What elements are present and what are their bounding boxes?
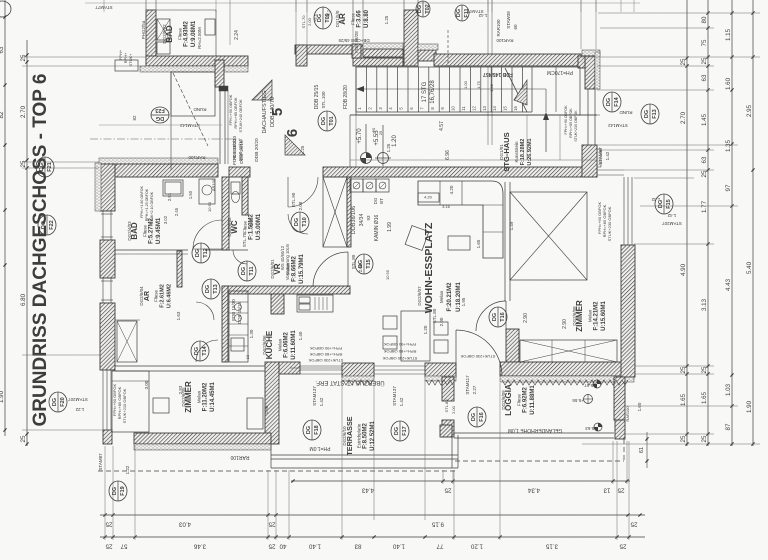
stair landing bbox=[531, 67, 533, 112]
wall stair left vertical bbox=[404, 10, 418, 66]
wall top band right bbox=[363, 49, 403, 57]
left witness lines bbox=[22, 56, 146, 58]
level mark +5.63 bbox=[594, 423, 602, 431]
door arc entrance stair bbox=[288, 177, 318, 207]
couch L-shape bbox=[418, 181, 503, 258]
insulation strip bbox=[594, 149, 601, 167]
door arc T13 bbox=[196, 302, 214, 320]
badge DG F18 bbox=[303, 420, 321, 440]
partition WC bbox=[242, 177, 248, 215]
stair cut line bbox=[505, 68, 527, 112]
roof access arrows bbox=[252, 80, 272, 100]
badge DG F13 bbox=[641, 104, 659, 124]
badge DG F23 bbox=[151, 107, 169, 123]
main wall right part bbox=[323, 167, 597, 177]
wall top middle right bbox=[353, 58, 403, 66]
terrace left lines bbox=[270, 444, 272, 468]
loggia left pier 1 bbox=[442, 377, 454, 401]
room label BAD top bbox=[162, 20, 197, 47]
room label ZIMMER right bbox=[572, 300, 607, 332]
dim line 61 bbox=[646, 432, 648, 468]
wall cap black bbox=[219, 86, 228, 91]
dining table bbox=[401, 311, 430, 361]
partition AR top bbox=[115, 319, 140, 321]
wall bathroom-top left vertical bbox=[146, 10, 156, 66]
badge DG F15 bbox=[655, 194, 673, 214]
zimmer-left right wall bbox=[265, 362, 279, 444]
room label VR bbox=[270, 254, 305, 284]
right chain 3 bbox=[725, 0, 734, 446]
dashed boundary vertical bbox=[623, 439, 625, 461]
right outer wall bbox=[621, 245, 635, 377]
badge DG T15 bbox=[355, 254, 373, 274]
badge DG F11 bbox=[455, 5, 470, 21]
window left zimmer bbox=[102, 370, 104, 430]
room label KUECHE bbox=[262, 330, 297, 360]
wall stair top long bbox=[434, 54, 581, 66]
loggia bottom edge bbox=[454, 432, 614, 434]
door arc VR-living T15 bbox=[313, 252, 348, 287]
washing machine BAD left bbox=[199, 179, 215, 204]
level mark +5.55 bbox=[584, 395, 593, 404]
thin partition living/zimmer bbox=[504, 182, 506, 301]
stipple corner top bbox=[582, 50, 600, 56]
loggia right pier bbox=[615, 420, 625, 439]
coffee table bbox=[448, 236, 470, 250]
badge DG F16 bbox=[468, 407, 486, 427]
terrace corner post bbox=[440, 425, 452, 437]
survey circle mark bbox=[375, 125, 391, 166]
loggia right wall bbox=[614, 377, 625, 420]
partition BAD/AR bbox=[177, 251, 182, 287]
stair hall verticals bbox=[526, 115, 528, 160]
room label TERRASSE bbox=[342, 416, 376, 455]
partition piece VR top bbox=[229, 167, 250, 177]
badge DG T01 bbox=[318, 111, 336, 131]
washbasin BAD left bbox=[163, 180, 183, 196]
badge DG T02 bbox=[416, 1, 431, 17]
right chain 1 bbox=[680, 0, 689, 446]
kitchen chimney pier bbox=[271, 294, 284, 314]
bottom witness lines bbox=[104, 446, 106, 540]
interior partition thin lines bbox=[115, 249, 188, 251]
stipple top band right bbox=[363, 43, 403, 49]
wall corner step bbox=[578, 56, 585, 68]
partition living/zimmer pier bbox=[506, 329, 519, 362]
room label STG-HAUS bbox=[499, 132, 533, 171]
insulation strip bbox=[418, 44, 438, 50]
badge DG T12 bbox=[192, 243, 210, 263]
bottom chain middle bbox=[100, 513, 645, 527]
stair arrow hatch bbox=[514, 80, 527, 105]
stair-house right wall thin bbox=[587, 89, 589, 149]
wall stair right corner bbox=[585, 56, 595, 89]
badge DG T16 bbox=[489, 307, 507, 327]
dash-dot line bbox=[90, 138, 240, 140]
door arc living-loggia bbox=[456, 330, 502, 376]
door arc WC T11 bbox=[233, 250, 247, 264]
badge DG F17 bbox=[391, 421, 409, 441]
level mark +5.67 bbox=[593, 380, 601, 388]
wardrobe AR left bbox=[117, 321, 137, 362]
shower top bad bbox=[157, 19, 170, 40]
right side witness lines bbox=[598, 12, 760, 14]
badge DG T09 bbox=[314, 7, 332, 29]
chairs dining bbox=[434, 322, 448, 335]
partition shaft right bbox=[347, 177, 351, 247]
survey compass mark bbox=[361, 124, 372, 164]
wall top middle bbox=[295, 45, 363, 54]
room label LOGGIA bbox=[501, 384, 536, 416]
bottom pier 1 bbox=[342, 363, 374, 377]
bottom pier 2 bbox=[425, 363, 456, 377]
door arc zimmer-left T14 bbox=[196, 340, 218, 362]
loggia left pier 2 bbox=[442, 420, 454, 437]
partition AR/zimmer-left bbox=[115, 365, 265, 367]
badge DG F20 bbox=[49, 392, 67, 412]
insulation strip bbox=[500, 376, 634, 382]
badge DG T13 bbox=[202, 279, 220, 299]
kitchen counter left arm bbox=[229, 291, 248, 362]
dashed boundary line bottom bbox=[98, 470, 455, 472]
insulation strip bbox=[140, 66, 248, 72]
room label AR left bbox=[139, 284, 173, 308]
bed zimmer left bbox=[112, 371, 149, 432]
right chain 2 bbox=[701, 0, 710, 446]
kitchen counter top arm bbox=[297, 295, 333, 312]
corner wall piece bbox=[279, 362, 300, 374]
stove block bbox=[350, 179, 363, 192]
thin wall lines below cap bbox=[219, 91, 221, 164]
roof terrace outline bbox=[171, 72, 215, 116]
left outer wall upper bbox=[100, 164, 115, 211]
wardrobe zimmer right bbox=[520, 340, 617, 362]
stair walk line bbox=[362, 88, 546, 90]
nightstand bbox=[247, 398, 263, 429]
WC fixture bbox=[231, 182, 240, 194]
room label ZIMMER left bbox=[181, 381, 216, 413]
riser line RAR100 bbox=[487, 0, 489, 145]
wall corner stair/zimmer bbox=[582, 145, 597, 177]
left dimension chain outer bbox=[0, 0, 7, 436]
window right outer bbox=[623, 177, 625, 245]
badge DG T14 bbox=[191, 341, 209, 361]
left dimension chain inner bbox=[20, 40, 29, 446]
badge DG F21 bbox=[36, 157, 54, 177]
wall stair top small bbox=[418, 50, 436, 61]
shaft with X bbox=[323, 177, 347, 247]
top witness lines bbox=[145, 0, 147, 12]
terrace edges bbox=[271, 454, 458, 456]
badge DG T11 bbox=[238, 261, 256, 281]
insulation strip bbox=[342, 376, 374, 381]
room label WC bbox=[227, 213, 262, 240]
left outer wall mid bbox=[100, 240, 115, 278]
badge DG F19 bbox=[109, 481, 127, 501]
staircase treads bbox=[356, 67, 580, 115]
left bottom pier bbox=[103, 430, 112, 444]
room label WOHN-ESSPLATZ bbox=[417, 222, 462, 313]
main wall left part bbox=[99, 164, 218, 177]
zimmer-left bottom wall bbox=[134, 433, 271, 444]
dashed boundary line right-bottom bbox=[455, 460, 624, 462]
insulation strip bbox=[99, 158, 218, 165]
insulation zigzag under piers bbox=[343, 380, 373, 385]
badge DG T10 bbox=[291, 212, 309, 232]
door arc T10 bbox=[288, 214, 308, 234]
insulation strip bbox=[134, 444, 271, 450]
roof terrace diagonal bbox=[173, 73, 208, 146]
wall right jamb niche bbox=[352, 44, 361, 58]
arrow up into stair house bbox=[545, 115, 547, 152]
partition bath/VR bbox=[222, 177, 229, 250]
insulation strip bbox=[425, 376, 456, 381]
window left BAD bbox=[101, 210, 113, 212]
window left AR bbox=[101, 277, 113, 279]
left outer wall lower bbox=[100, 303, 115, 370]
badge DG F22 bbox=[38, 215, 56, 235]
bottom chain upper bbox=[291, 479, 630, 493]
badge DG F14 bbox=[603, 92, 621, 112]
terrace door threshold bbox=[290, 367, 342, 369]
armchair tilted bbox=[405, 226, 429, 251]
wall bathroom-top bottom bbox=[146, 56, 248, 66]
door arc living-zimmer T16 bbox=[476, 301, 506, 331]
hall lines below stairs bbox=[350, 114, 600, 116]
window bottom band bbox=[300, 365, 342, 367]
wall VR bottom bbox=[222, 286, 350, 294]
top edge reference lines bbox=[103, 0, 105, 12]
bed zimmer right / dachschraege X bbox=[510, 192, 587, 280]
wall stub below bathroom-top bbox=[215, 60, 224, 87]
partial badge top-left corner bbox=[0, 1, 11, 17]
wall step down bbox=[296, 45, 307, 66]
stipple corner right bbox=[595, 52, 600, 89]
bottom chain lower bbox=[100, 535, 645, 549]
room label AR top bbox=[335, 9, 370, 28]
outer stipple left wall bbox=[95, 163, 101, 211]
room label BAD left bbox=[127, 217, 162, 244]
partition kitchen left bbox=[222, 286, 228, 362]
right chain 4 bbox=[746, 0, 755, 446]
zimmer-right bottom wall bbox=[500, 362, 634, 376]
door arc bath T12 bbox=[193, 220, 222, 249]
